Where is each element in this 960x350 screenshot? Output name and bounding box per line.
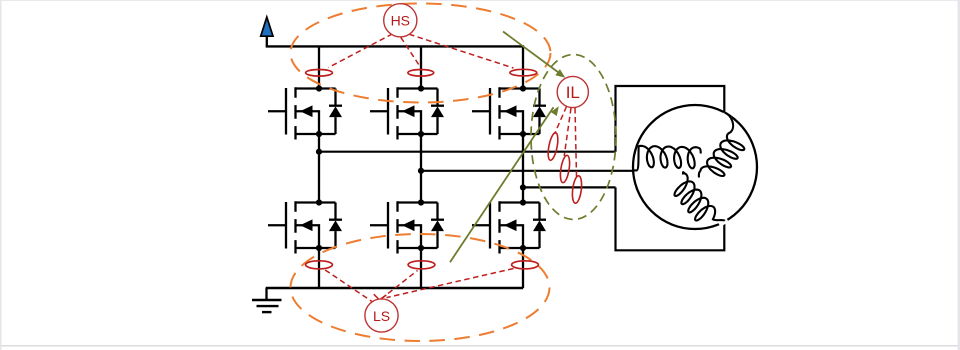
loop ellipse IL phase A xyxy=(546,132,559,161)
node phase A tap xyxy=(316,149,322,155)
loop ellipse LS phase A xyxy=(306,261,333,269)
node phase B tap xyxy=(418,168,424,174)
motor stator circle xyxy=(633,105,757,229)
HS highlight ellipse (orange dashed) xyxy=(291,4,551,103)
loop ellipse IL phase B xyxy=(559,155,571,184)
IL callout line to phase C loop xyxy=(575,108,577,177)
wire: Q5 source to ground rail xyxy=(420,248,422,288)
svg-text:LS: LS xyxy=(373,308,390,324)
IL highlight ellipse (olive dashed) xyxy=(531,55,616,220)
winding coil A (phase A, to top-right rim) xyxy=(699,113,744,178)
DC bus arrow (supply) xyxy=(261,17,273,46)
HS callout line to phase B loop xyxy=(401,37,420,66)
gap in circle at coil A entry xyxy=(720,112,731,122)
HS callout line to phase C loop xyxy=(409,34,514,68)
transistor Q6 low-side phase C xyxy=(472,199,546,253)
olive arrow from LS region into IL xyxy=(450,106,559,262)
LS label circle xyxy=(365,299,398,332)
IL callout line to phase A loop xyxy=(555,107,567,135)
wire: rail to Q3 drain xyxy=(522,46,524,89)
wire: rail to Q2 drain xyxy=(420,46,422,89)
wire: phase A line xyxy=(319,151,616,153)
svg-text:IL: IL xyxy=(566,83,580,102)
loop ellipse HS phase A xyxy=(306,70,333,77)
loop ellipse IL phase C xyxy=(571,175,583,203)
loop ellipse HS phase C xyxy=(510,69,537,76)
transistor Q3 high-side phase C xyxy=(472,85,546,139)
winding coil C (phase C, to bottom-right rim) xyxy=(675,172,725,221)
IL callout line to phase B loop xyxy=(564,108,571,156)
loop ellipse LS phase B xyxy=(408,261,435,269)
LS callout line to phase C loop with arrowhead xyxy=(374,269,514,300)
IL label circle xyxy=(557,76,588,107)
winding coil B (phase B, from left rim) xyxy=(633,146,700,171)
transistor Q2 high-side phase B xyxy=(370,85,444,139)
loop ellipse HS phase B xyxy=(408,70,434,77)
transistor Q5 low-side phase B xyxy=(370,199,444,253)
wire: positive DC rail xyxy=(266,45,524,47)
loop ellipse LS phase C xyxy=(512,261,539,269)
ground xyxy=(252,288,282,312)
wire: rail to Q1 drain xyxy=(318,46,320,89)
wire: Q3 source to Q6 drain xyxy=(522,134,524,203)
wire: phase B line xyxy=(421,170,634,172)
olive arrow from HS into IL xyxy=(503,32,565,78)
transistor Q1 high-side phase A xyxy=(268,85,342,139)
node phase C tap xyxy=(520,184,526,190)
LS highlight ellipse (orange dashed) xyxy=(291,234,550,341)
wire: Q4 source to ground rail xyxy=(318,248,320,288)
transistor Q4 low-side phase A xyxy=(268,199,342,253)
LS callout line to phase B loop xyxy=(381,271,418,300)
LS callout line to phase A loop xyxy=(325,270,375,304)
wire: motor terminal frame (phase A and C feed box) xyxy=(616,86,725,250)
svg-text:HS: HS xyxy=(391,13,410,29)
wire: Q6 source to ground rail xyxy=(522,248,524,288)
HS label circle xyxy=(384,4,417,37)
wire: negative DC rail xyxy=(266,287,524,289)
wire: Q2 source to Q5 drain xyxy=(420,134,422,203)
HS callout line to phase A loop xyxy=(329,34,393,68)
wire: Q1 source to Q4 drain xyxy=(318,134,320,203)
wire: phase C line xyxy=(523,186,616,188)
gap in circle at coil C entry xyxy=(717,217,728,227)
